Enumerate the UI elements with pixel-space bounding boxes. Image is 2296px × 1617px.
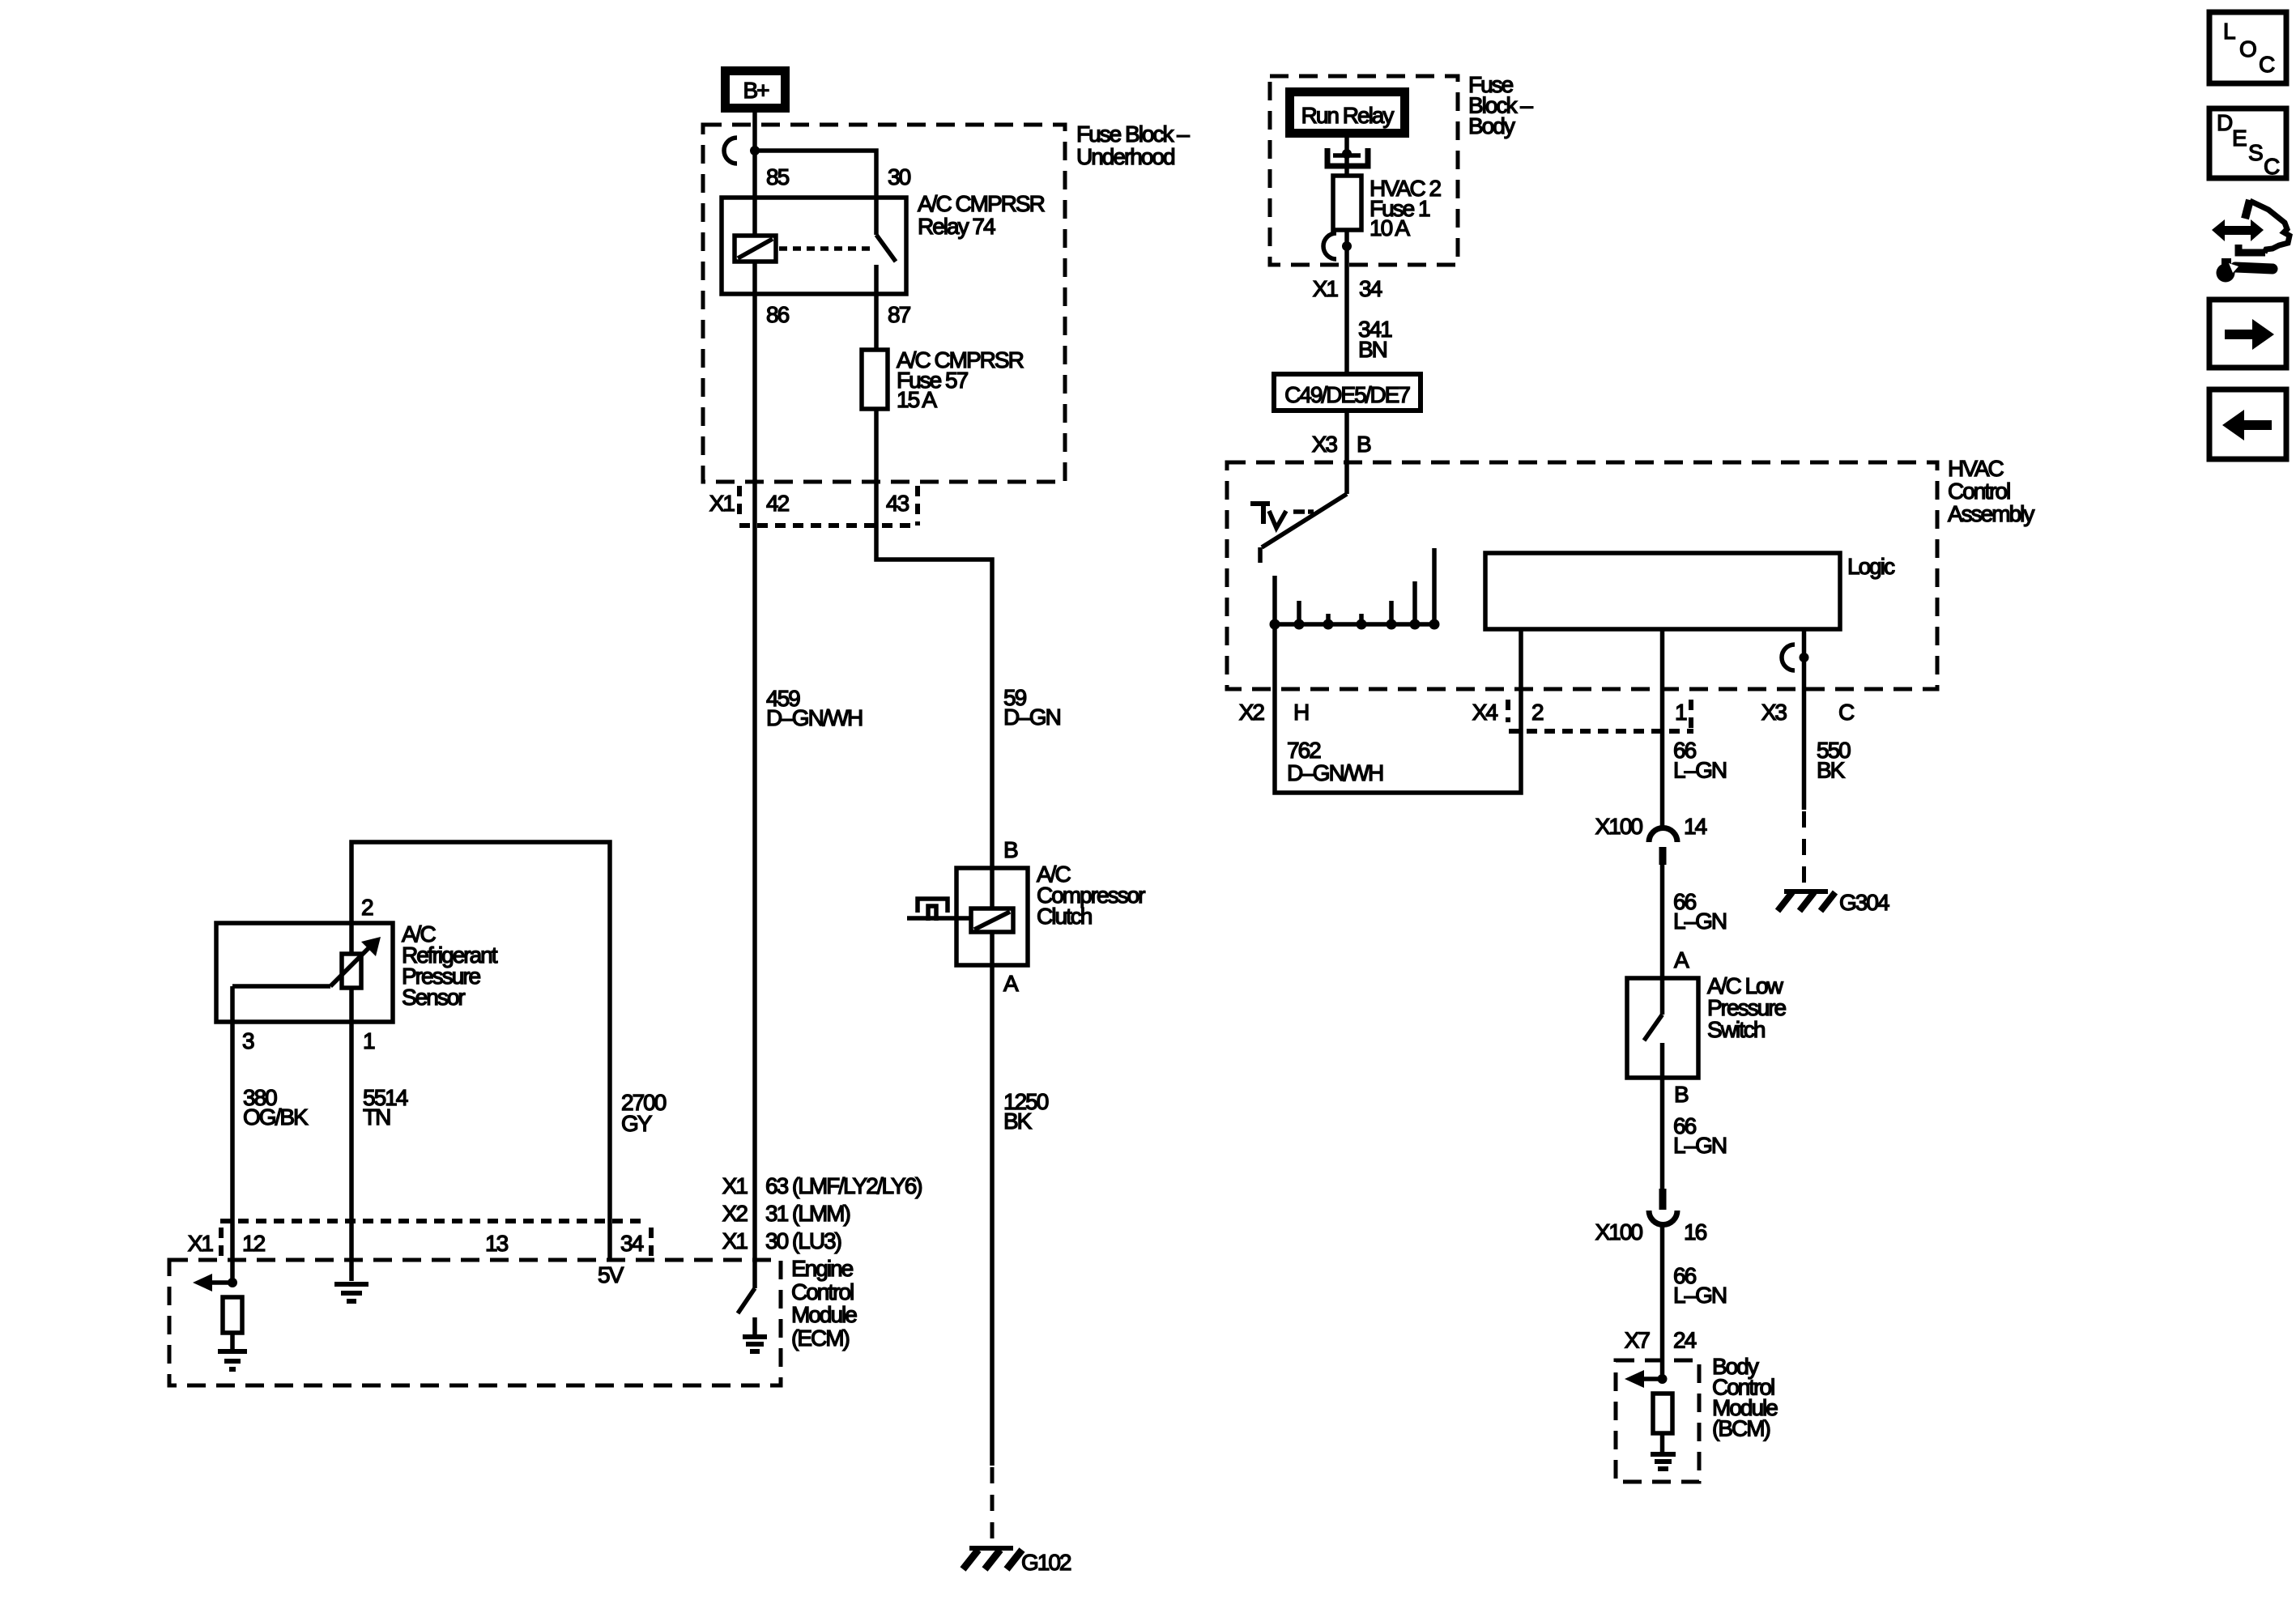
svg-text:30 (LU3): 30 (LU3) (765, 1228, 841, 1253)
svg-text:(BCM): (BCM) (1712, 1416, 1770, 1441)
svg-text:TN: TN (363, 1104, 390, 1130)
wire 66 L-GN from logic pin 1 (1663, 629, 1727, 830)
wire relay 86 down (circuit 459) (752, 294, 757, 1288)
svg-text:Engine: Engine (791, 1256, 854, 1281)
svg-text:X1: X1 (709, 491, 735, 516)
wire 5514 TN (351, 1022, 408, 1281)
svg-text:HVAC: HVAC (1948, 456, 2004, 481)
relay socket symbol (1327, 148, 1368, 166)
svg-text:D: D (2217, 110, 2232, 135)
logic box (1485, 553, 1895, 629)
svg-text:Fuse Block –: Fuse Block – (1076, 121, 1190, 147)
svg-text:2: 2 (361, 895, 373, 920)
svg-text:G102: G102 (1021, 1550, 1071, 1575)
svg-text:24: 24 (1673, 1328, 1697, 1353)
sensor label (402, 921, 498, 1010)
svg-text:BN: BN (1358, 337, 1387, 362)
clutch coil (971, 908, 1013, 932)
pin 30 (888, 164, 911, 189)
wire B+ node to relay pin 30 (755, 151, 876, 198)
fuse 57 A/C CMPRSR 15A (862, 350, 888, 409)
svg-text:10 A: 10 A (1370, 215, 1410, 240)
svg-text:Run Relay: Run Relay (1301, 103, 1395, 128)
HVAC switch fixed contact (1250, 504, 1314, 528)
connector X3 pin B labels (1312, 432, 1371, 457)
svg-text:14: 14 (1684, 814, 1707, 839)
splice clamp below fuse 1 (1323, 233, 1336, 259)
wire 66 to X100-16 (1663, 1078, 1727, 1189)
relay linkage dashed (779, 246, 871, 251)
icon arrow left (2209, 389, 2286, 459)
svg-text:X7: X7 (1625, 1328, 1651, 1353)
wire fuse 57 to clutch (circuit 59) (876, 409, 992, 868)
wire fuse 1 down (circuit 341) (1344, 230, 1349, 374)
svg-text:Underhood: Underhood (1076, 144, 1174, 169)
svg-text:H: H (1293, 700, 1308, 725)
wire 1250 BK label (1003, 1089, 1049, 1134)
svg-text:S: S (2248, 140, 2263, 165)
pin 3 (242, 1028, 254, 1053)
svg-text:C: C (2264, 154, 2280, 179)
svg-text:E: E (2232, 126, 2247, 151)
svg-text:X100: X100 (1595, 814, 1643, 839)
svg-text:63 (LMF/LY2/LY6): 63 (LMF/LY2/LY6) (765, 1173, 922, 1198)
wire C49 to HVAC (1344, 411, 1349, 494)
ground G304 (1778, 890, 1889, 915)
svg-text:X100: X100 (1595, 1219, 1643, 1245)
wire 59 D-GN label (1003, 685, 1060, 730)
connector X4 pins 2 1 (1472, 700, 1693, 731)
svg-text:16: 16 (1684, 1219, 1707, 1245)
svg-text:Logic: Logic (1847, 554, 1895, 579)
svg-text:X4: X4 (1472, 700, 1498, 725)
node 5V (598, 1262, 624, 1287)
svg-text:34: 34 (1359, 276, 1382, 301)
fuse HVAC 2 Fuse 1 10A (1333, 176, 1361, 230)
run relay terminal (1285, 87, 1409, 138)
svg-text:Switch: Switch (1707, 1017, 1765, 1042)
relay coil (735, 236, 776, 262)
svg-text:G304: G304 (1839, 890, 1889, 915)
fuse block underhood dashed box (703, 125, 1065, 482)
ECM internal ground (switch) (743, 1317, 767, 1351)
svg-text:85: 85 (766, 164, 790, 189)
BCM interior arrow dot resistor ground (1625, 1370, 1676, 1469)
relay switch contact 30-87 (876, 198, 896, 294)
svg-text:Assembly: Assembly (1948, 501, 2034, 526)
svg-text:762: 762 (1287, 738, 1321, 763)
svg-text:B+: B+ (743, 78, 769, 103)
svg-text:Control: Control (791, 1279, 854, 1304)
svg-text:A/C CMPRSR: A/C CMPRSR (918, 191, 1045, 216)
ECM pin13 ground (334, 1284, 368, 1301)
icon arrow right (2209, 300, 2286, 368)
label Fuse Block - Underhood (1076, 121, 1190, 169)
svg-text:5V: 5V (598, 1262, 624, 1287)
A/C refrigerant pressure sensor box (216, 923, 393, 1022)
svg-text:34: 34 (620, 1231, 644, 1256)
wire 459 D-GN/WH label (766, 686, 862, 730)
svg-text:1: 1 (363, 1028, 375, 1053)
junction dot on 550 (1800, 653, 1809, 662)
svg-text:87: 87 (888, 302, 911, 327)
ECM pin12 arrow + resistor + ground (193, 1274, 247, 1369)
junction dot B+ node (750, 146, 760, 155)
svg-text:42: 42 (766, 491, 790, 516)
wire 2700 GY (351, 842, 667, 1260)
wire 380 OG/BK (232, 986, 309, 1283)
wire run relay to fuse (1344, 138, 1349, 176)
ECM label (791, 1256, 857, 1351)
wire B+ feed to relay pin 85 (752, 113, 757, 198)
wire 1250 BK (990, 965, 995, 1543)
connector C49/DE5/DE7 (1274, 374, 1421, 411)
svg-text:D–GN/WH: D–GN/WH (766, 705, 862, 730)
power terminal B+ (721, 66, 790, 113)
sensor variable resistor with arrow (330, 923, 381, 1022)
svg-text:X3: X3 (1312, 432, 1338, 457)
fuse block body dashed box (1270, 76, 1458, 265)
svg-text:X1: X1 (1313, 276, 1339, 301)
svg-text:31 (LMM): 31 (LMM) (765, 1201, 850, 1226)
pin B (1003, 837, 1018, 862)
HVAC mode switch blade (1260, 494, 1347, 563)
ECM pin rows (722, 1173, 922, 1253)
icon DESC (2209, 109, 2286, 179)
svg-text:X2: X2 (1239, 700, 1265, 725)
ground G102 (963, 1548, 1071, 1575)
pin A (1003, 971, 1019, 996)
connector X7 pin 24 labels (1625, 1328, 1697, 1353)
wire 550 BK label (1817, 738, 1851, 783)
icon LOC (2209, 12, 2286, 83)
wire 762 label (1287, 738, 1382, 785)
svg-text:13: 13 (485, 1231, 509, 1256)
fuse 1 label (1370, 176, 1441, 240)
svg-text:BK: BK (1817, 758, 1846, 783)
wire 762 D-GN/WH loop H to 2 (1275, 624, 1521, 793)
pin 85 (766, 164, 790, 189)
relay A/C CMPRSR Relay 74 box (722, 198, 906, 294)
svg-text:B: B (1003, 837, 1018, 862)
junction dot below fuse 1 (1342, 241, 1352, 251)
svg-text:L–GN: L–GN (1673, 758, 1726, 783)
wire 66 to switch A (1663, 865, 1727, 978)
connector X2 pin H labels (1239, 700, 1308, 725)
svg-text:B: B (1357, 432, 1371, 457)
wire through relay coil pin85-86 (752, 198, 757, 294)
low pressure switch label (1707, 973, 1786, 1042)
connector X3 pin C labels (1761, 700, 1855, 725)
mechanical linkage symbol (907, 899, 971, 921)
svg-text:43: 43 (886, 491, 909, 516)
svg-text:Module: Module (791, 1302, 857, 1327)
svg-text:3: 3 (242, 1028, 254, 1053)
A/C compressor clutch box (956, 868, 1028, 965)
wire 341 BN label (1358, 317, 1392, 362)
wire through clutch (990, 868, 995, 965)
svg-text:C: C (1838, 700, 1855, 725)
svg-text:OG/BK: OG/BK (243, 1104, 309, 1130)
svg-text:A: A (1003, 971, 1019, 996)
blower contact row (1270, 548, 1440, 630)
svg-text:X1: X1 (188, 1231, 214, 1256)
label Fuse Block - Body (1468, 72, 1533, 138)
sensor internal horizontal link (232, 984, 330, 989)
connector X1 pins 42 43 (709, 486, 918, 526)
svg-text:L: L (2223, 19, 2235, 44)
in-line connector X100 pin 16 (1595, 1189, 1707, 1245)
splice clamp symbol at B+ node (724, 138, 737, 164)
svg-text:2: 2 (1531, 700, 1544, 725)
svg-text:C49/DE5/DE7: C49/DE5/DE7 (1284, 382, 1410, 407)
svg-text:GY: GY (621, 1111, 653, 1136)
svg-text:15 A: 15 A (897, 387, 937, 412)
svg-text:Body: Body (1468, 113, 1515, 138)
svg-text:X2: X2 (722, 1201, 748, 1226)
svg-text:12: 12 (242, 1231, 266, 1256)
svg-text:Control: Control (1948, 479, 2010, 504)
pin 87 (888, 302, 911, 327)
svg-text:D–GN: D–GN (1003, 704, 1060, 730)
ECM internal switch on 459 (738, 1288, 755, 1313)
svg-text:BK: BK (1003, 1108, 1033, 1134)
svg-text:1: 1 (1675, 700, 1687, 725)
svg-text:Relay 74: Relay 74 (918, 214, 995, 239)
svg-text:X1: X1 (722, 1173, 748, 1198)
connector X1 pins 12 13 34 (188, 1221, 651, 1256)
connector X1 pin 34 labels (1313, 276, 1382, 301)
svg-text:D–GN/WH: D–GN/WH (1287, 760, 1382, 785)
svg-text:(ECM): (ECM) (791, 1326, 850, 1351)
in-line connector X100 pin 14 (1595, 814, 1707, 865)
svg-text:X1: X1 (722, 1228, 748, 1253)
clutch label (1037, 862, 1145, 929)
pin A (1674, 947, 1689, 972)
svg-text:L–GN: L–GN (1673, 1133, 1726, 1158)
BCM label (1712, 1354, 1778, 1441)
relay label (918, 191, 1045, 239)
HVAC control assembly dashed box (1227, 462, 1937, 689)
svg-text:30: 30 (888, 164, 911, 189)
pin B (1674, 1082, 1689, 1107)
svg-text:L–GN: L–GN (1673, 908, 1726, 934)
wire 550 BK from logic X3-C (1802, 629, 1807, 889)
low pressure switch contacts (1644, 978, 1663, 1078)
svg-text:86: 86 (766, 302, 790, 327)
fuse 57 label (897, 347, 1024, 412)
HVAC label (1948, 456, 2034, 526)
svg-text:A: A (1674, 947, 1689, 972)
pin 2 (361, 895, 373, 920)
wire relay 87 to fuse 57 (874, 294, 879, 350)
svg-text:Sensor: Sensor (402, 985, 465, 1010)
svg-text:O: O (2239, 36, 2256, 62)
pin 86 (766, 302, 790, 327)
A/C low pressure switch box (1627, 978, 1698, 1078)
svg-text:X3: X3 (1761, 700, 1787, 725)
svg-text:Clutch: Clutch (1037, 904, 1092, 929)
splice clamp on 550 (1782, 645, 1795, 670)
svg-text:L–GN: L–GN (1673, 1283, 1726, 1308)
BCM dashed box (1616, 1360, 1699, 1482)
pin 1 (363, 1028, 375, 1053)
ECM dashed box (169, 1260, 781, 1385)
svg-text:C: C (2259, 52, 2275, 77)
wire 66 to BCM (1663, 1225, 1727, 1379)
svg-text:B: B (1674, 1082, 1689, 1107)
icon vehicle with arrow and wrench (2212, 200, 2290, 283)
